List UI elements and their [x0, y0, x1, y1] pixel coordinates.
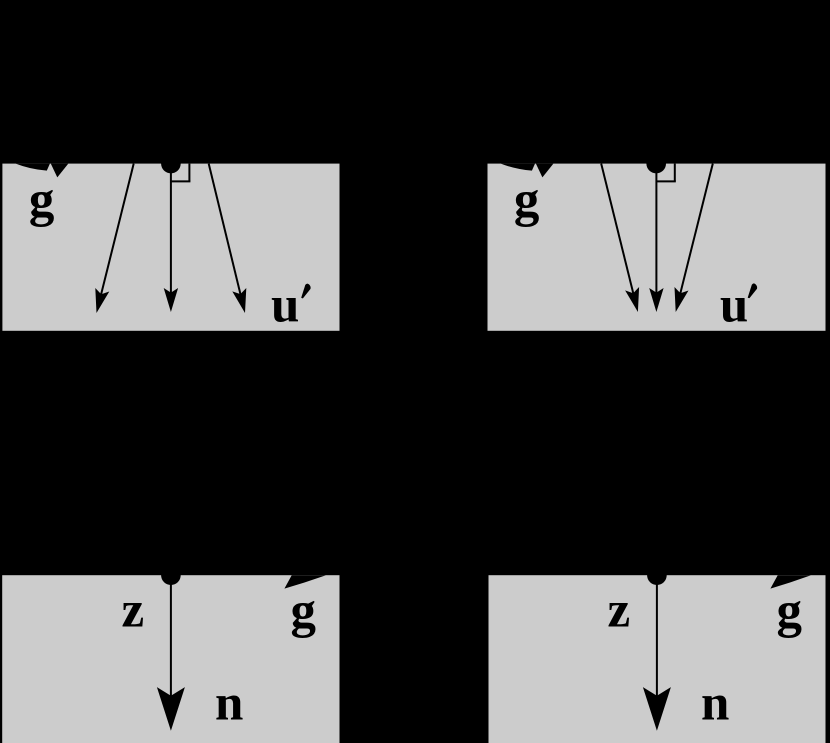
svg-text:g: g: [29, 172, 55, 228]
svg-text:n: n: [701, 676, 729, 732]
svg-text:g: g: [777, 583, 803, 639]
svg-text:z: z: [122, 582, 145, 638]
svg-text:u: u: [271, 277, 299, 333]
svg-text:z: z: [608, 582, 631, 638]
svg-text:n: n: [215, 676, 243, 732]
svg-text:g: g: [514, 172, 540, 228]
svg-text:u: u: [720, 277, 748, 333]
svg-text:g: g: [291, 583, 317, 639]
